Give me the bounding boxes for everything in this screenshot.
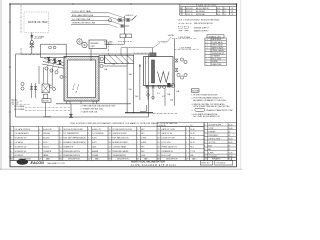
svg-text:FC20: FC20 xyxy=(43,142,47,144)
svg-text:I.O TANK: I.O TANK xyxy=(43,115,52,118)
flue fan housing xyxy=(99,56,105,63)
svg-text:15A: 15A xyxy=(167,93,171,96)
leader 2 xyxy=(109,17,124,22)
svg-text:60-50: 60-50 xyxy=(228,138,232,140)
svg-text:S.H.: S.H. xyxy=(217,11,221,13)
svg-text:1: 1 xyxy=(137,129,138,131)
svg-text:K.J.: K.J. xyxy=(224,8,227,10)
riser leader xyxy=(167,37,171,42)
svg-text:A: A xyxy=(76,91,78,94)
symbol list table xyxy=(205,38,227,66)
svg-text:E75-B1131: E75-B1131 xyxy=(217,163,226,165)
notes block xyxy=(191,89,199,92)
cluster box B xyxy=(126,34,132,38)
left tag bubble 1 xyxy=(21,82,24,85)
svg-text:1-A PA: 1-A PA xyxy=(168,34,175,37)
svg-text:50-60: 50-60 xyxy=(228,128,232,130)
svg-text:OIL GAUGE ASS'Y: OIL GAUGE ASS'Y xyxy=(15,132,30,135)
svg-text:05.10.08: 05.10.08 xyxy=(186,8,193,10)
svg-text:1+1 RESERVE: 1+1 RESERVE xyxy=(92,133,104,135)
svg-text:1: 1 xyxy=(88,138,89,140)
svg-text:1-1/2B STEAM: 1-1/2B STEAM xyxy=(178,36,190,39)
parts table cells xyxy=(11,124,196,157)
svg-text:20: 20 xyxy=(109,151,111,153)
lance valve 2 xyxy=(53,59,57,64)
legend maker supply xyxy=(179,30,189,32)
svg-text:A-2000 / PC: A-2000 / PC xyxy=(92,128,102,131)
riser tag 2 xyxy=(184,60,187,63)
dashdot to box xyxy=(134,52,150,54)
svg-text:AS ORDER: AS ORDER xyxy=(196,10,206,13)
svg-text:4: 4 xyxy=(11,142,12,144)
control valve body xyxy=(30,44,34,47)
drain valve xyxy=(70,114,73,117)
svg-text:S.H.: S.H. xyxy=(217,14,221,16)
control valve actuator xyxy=(30,41,33,44)
svg-text:BOLT: BOLT xyxy=(208,145,212,147)
burner gauge 1 xyxy=(49,46,52,49)
svg-text:15: 15 xyxy=(109,129,111,131)
revision table xyxy=(180,4,237,15)
svg-text:GLOBE VALVE: GLOBE VALVE xyxy=(212,41,223,44)
svg-text:BURNER: BURNER xyxy=(91,43,100,45)
svg-text:DRAIN TRAP: DRAIN TRAP xyxy=(212,63,222,66)
svg-text:SEE SPECIFICATION: SEE SPECIFICATION xyxy=(194,22,213,25)
oil inlet valve 2 xyxy=(35,83,37,98)
svg-text:○: ○ xyxy=(206,53,207,55)
cluster box A xyxy=(120,34,126,38)
riser dash-dot xyxy=(172,38,196,40)
svg-text:STRAINER 1B: STRAINER 1B xyxy=(162,150,174,153)
svg-text:5K-15: 5K-15 xyxy=(190,138,195,140)
svg-text:SET: SET xyxy=(141,129,144,131)
flue duct xyxy=(105,55,134,63)
svg-text:3: 3 xyxy=(11,138,12,140)
svg-text:0.4KW: 0.4KW xyxy=(141,142,146,144)
svg-text:V-1: V-1 xyxy=(157,93,160,95)
svg-text:2: 2 xyxy=(39,146,40,148)
boiler downpipe 3 xyxy=(164,88,166,106)
strainer box xyxy=(42,99,51,103)
svg-text:WASTE OIL TANK: WASTE OIL TANK xyxy=(28,21,48,24)
air pipe xyxy=(121,47,153,49)
svg-text:60Φ: 60Φ xyxy=(141,150,145,153)
svg-text:1: 1 xyxy=(204,124,205,126)
svg-text:GATE VALVE: GATE VALVE xyxy=(212,38,222,41)
svg-text:A-ITR: A-ITR xyxy=(92,137,97,140)
blower fan 1 xyxy=(77,39,82,44)
svg-text:2: 2 xyxy=(204,128,205,130)
svg-text:SOL-DRAIN: SOL-DRAIN xyxy=(14,108,25,111)
scan edge right xyxy=(240,0,242,170)
svg-text:6: 6 xyxy=(11,151,12,153)
dashed vent xyxy=(118,41,132,43)
svg-text:1: 1 xyxy=(88,142,89,144)
riser tag 5 xyxy=(184,73,187,76)
svg-text:1: 1 xyxy=(186,125,187,127)
svg-text:PLAN HISTORY: PLAN HISTORY xyxy=(196,4,217,7)
svg-text:MODEL: MODEL xyxy=(43,101,49,103)
riser tag 4 xyxy=(180,76,183,79)
riser pipe xyxy=(174,39,176,87)
boiler inner wall xyxy=(145,57,147,86)
wire tank outlet xyxy=(31,33,33,41)
instrument bubble top xyxy=(108,19,111,22)
svg-text:OIL VALVE: OIL VALVE xyxy=(15,141,24,144)
svg-text:8: 8 xyxy=(204,149,205,151)
svg-text:NO: NO xyxy=(59,158,62,160)
svg-text:PRESS GAUGE V/V: PRESS GAUGE V/V xyxy=(162,145,178,148)
svg-text:AC220V: AC220V xyxy=(43,137,50,140)
svg-text:10: 10 xyxy=(60,138,62,140)
svg-text:25A: 25A xyxy=(176,90,180,93)
svg-text:DIFF PRESS: DIFF PRESS xyxy=(208,135,217,137)
svg-text:SET: SET xyxy=(141,133,144,135)
svg-text:25: 25 xyxy=(158,142,160,144)
feed drop pipes xyxy=(39,66,52,85)
svg-text:UNIT: UNIT xyxy=(91,46,96,48)
burner blower unit xyxy=(89,40,107,49)
maker logo xyxy=(17,159,29,165)
svg-text:2: 2 xyxy=(39,138,40,140)
svg-text:MAT'L: MAT'L xyxy=(95,157,100,160)
svg-text:5: 5 xyxy=(204,138,205,140)
manifold valve 1 xyxy=(146,86,149,88)
svg-text:MACHINE CO. LTD: MACHINE CO. LTD xyxy=(48,162,66,165)
svg-text:FLAME EYE: FLAME EYE xyxy=(64,145,74,148)
svg-text:9: 9 xyxy=(60,133,61,135)
svg-text:1: 1 xyxy=(39,129,40,131)
svg-text:1: 1 xyxy=(39,133,40,135)
svg-text:7: 7 xyxy=(204,145,205,147)
manifold gauge 2 xyxy=(163,85,166,88)
incinerator furnace wall xyxy=(64,57,99,102)
svg-text:05.12.15: 05.12.15 xyxy=(186,14,193,16)
svg-text:3.7KW: 3.7KW xyxy=(141,138,146,140)
svg-text:SUS-304: SUS-304 xyxy=(43,133,50,135)
svg-text:27: 27 xyxy=(158,151,160,153)
waste oil tank (dashed box) xyxy=(24,12,49,33)
wire to boundary xyxy=(31,47,33,54)
svg-text:DESCRIPTION: DESCRIPTION xyxy=(68,158,80,160)
svg-text:FLOW DIAGRAM E75-B1131: FLOW DIAGRAM E75-B1131 xyxy=(131,164,176,167)
riser tag 3 xyxy=(177,73,180,76)
svg-text:KF-1: KF-1 xyxy=(190,146,194,148)
svg-text:□: □ xyxy=(206,56,207,58)
svg-text:23: 23 xyxy=(158,133,160,135)
svg-text:P-PIPING: P-PIPING xyxy=(208,131,216,133)
riser valve 1 xyxy=(175,59,178,62)
svg-text:18: 18 xyxy=(109,142,111,144)
svg-text:Y.S.: Y.S. xyxy=(231,11,235,13)
svg-text:05.11.02: 05.11.02 xyxy=(186,11,193,13)
wire unit down xyxy=(90,49,92,62)
legend dash-dot xyxy=(179,22,193,24)
svg-text:SOLENOID V/V: SOLENOID V/V xyxy=(15,146,28,148)
svg-text:IGNITION DEVICE: IGNITION DEVICE xyxy=(113,133,128,135)
deck dash-dot xyxy=(153,112,177,114)
boiler downpipe 2 xyxy=(152,88,154,100)
dwg no box 2 xyxy=(215,161,233,165)
legend engine supply xyxy=(179,26,183,28)
right ref table cells xyxy=(204,124,232,158)
burner tag 1 xyxy=(45,67,48,70)
svg-text:1/4B SOL+VENT: 1/4B SOL+VENT xyxy=(208,138,220,140)
svg-text:5K-15: 5K-15 xyxy=(190,142,195,144)
svg-text:SAFETY VALVE: SAFETY VALVE xyxy=(212,46,224,49)
svg-text:QRB: QRB xyxy=(92,146,97,148)
svg-text:CHECK VALVE: CHECK VALVE xyxy=(212,44,223,47)
leader 3 xyxy=(109,21,121,25)
svg-text:MAT'L: MAT'L xyxy=(192,157,197,160)
blower fan 2 xyxy=(82,42,87,47)
symbol list header xyxy=(207,35,224,38)
svg-text:ALARM: ALARM xyxy=(92,150,98,153)
svg-text:2: 2 xyxy=(186,129,187,131)
svg-text:B: B xyxy=(73,89,75,91)
svg-text:OIL GATE STOPPLE: OIL GATE STOPPLE xyxy=(15,128,32,131)
svg-text:Y.S.: Y.S. xyxy=(231,14,235,16)
svg-text:AS QUOTATION: AS QUOTATION xyxy=(196,7,209,10)
svg-text:ENGINE SUPPLY: ENGINE SUPPLY xyxy=(194,27,210,29)
riser tag 1 xyxy=(180,58,183,61)
riser branch dashdot xyxy=(175,48,200,50)
manifold valve 2 xyxy=(152,86,155,88)
floor line xyxy=(56,103,131,105)
burner lance 1 xyxy=(44,59,64,63)
strainer X box xyxy=(42,84,49,93)
svg-text:V-2: V-2 xyxy=(162,96,165,98)
svg-text:OIL TYPE: OIL TYPE xyxy=(208,142,215,144)
svg-text:24: 24 xyxy=(158,138,160,140)
border frame xyxy=(10,4,237,167)
svg-text:THERMOMETER: THERMOMETER xyxy=(212,53,225,55)
svg-text:STRAINER: STRAINER xyxy=(212,55,221,58)
boiler downpipe 4 xyxy=(174,87,176,106)
riser valve 2 xyxy=(175,69,178,72)
svg-text:NO LIN AT ECONOMIZER TOP: NO LIN AT ECONOMIZER TOP xyxy=(193,115,220,118)
svg-text:SC: SC xyxy=(228,158,231,160)
svg-text:23-45: 23-45 xyxy=(228,124,232,126)
downpipe tag 1 xyxy=(147,94,150,97)
left tag bubble 2 xyxy=(21,87,24,90)
svg-text:1-1/2B STEAM: 1-1/2B STEAM xyxy=(179,47,191,50)
svg-text:GATE V/V 1-1/2B: GATE V/V 1-1/2B xyxy=(162,128,176,131)
svg-text:A, B, C PORTION FIXED : AS A Q: A, B, C PORTION FIXED : AS A QUOTATION(S… xyxy=(179,18,220,21)
svg-text:REMARKS: REMARKS xyxy=(212,157,221,160)
svg-text:60: 60 xyxy=(228,131,230,133)
svg-text:1: 1 xyxy=(88,133,89,135)
svg-text:APPROVAL: APPROVAL xyxy=(196,13,205,16)
svg-text:2: 2 xyxy=(186,133,187,135)
lance valve 1 xyxy=(47,57,51,62)
svg-text:FUNNEL: FUNNEL xyxy=(212,61,218,63)
furnace drain stub xyxy=(80,101,82,104)
svg-text:T-PIPE: T-PIPE xyxy=(208,128,213,130)
long vertical pipe 1 xyxy=(126,48,128,113)
svg-text:22: 22 xyxy=(158,129,160,131)
skid boundary xyxy=(16,54,149,117)
svg-text:3: 3 xyxy=(204,131,205,133)
svg-text:1: 1 xyxy=(11,129,12,131)
svg-text:1: 1 xyxy=(137,133,138,135)
svg-text:4: 4 xyxy=(186,138,187,140)
burner tag 2 xyxy=(50,69,53,72)
svg-text:SLUDGE DOSING PUMP: SLUDGE DOSING PUMP xyxy=(64,129,84,131)
pipe from deck (dash-dot) xyxy=(20,5,22,33)
svg-text:EXH. GAS VENT LINE: EXH. GAS VENT LINE xyxy=(72,14,94,17)
svg-text:PRESS. GAUGE: PRESS. GAUGE xyxy=(212,49,224,52)
svg-text:MAKER SUPPLY: MAKER SUPPLY xyxy=(194,30,209,33)
svg-text:2: 2 xyxy=(137,151,138,153)
furnace leg left xyxy=(67,101,71,104)
svg-text:5: 5 xyxy=(11,146,12,148)
drop to boundary xyxy=(45,102,47,117)
svg-text:FURNACE THERMOSTAT(S): FURNACE THERMOSTAT(S) xyxy=(64,141,87,144)
svg-text:B.C TRANSMITTER: B.C TRANSMITTER xyxy=(64,132,80,135)
svg-text:1. PIPE LINE SIZE 15A UNLESS N: 1. PIPE LINE SIZE 15A UNLESS NOTED xyxy=(81,105,117,108)
svg-text:MAT'L: MAT'L xyxy=(46,157,51,160)
svg-text:3. VALVE SIZE 15A: 3. VALVE SIZE 15A xyxy=(81,111,98,114)
stack stub xyxy=(151,48,153,53)
inlet manifold cluster xyxy=(117,16,137,35)
pump body xyxy=(167,83,170,87)
wire furnace right xyxy=(103,65,127,67)
svg-text:1: 1 xyxy=(137,138,138,140)
svg-text:A-105 C/W: A-105 C/W xyxy=(43,128,52,131)
frame tick marks xyxy=(9,3,131,157)
svg-text:4: 4 xyxy=(204,135,205,137)
svg-text:2: 2 xyxy=(186,142,187,144)
svg-text:45: 45 xyxy=(228,149,230,151)
svg-text:2: 2 xyxy=(11,133,12,135)
svg-text:NO: NO xyxy=(108,158,111,160)
svg-text:8: 8 xyxy=(60,129,61,131)
burner feed dash-dot xyxy=(21,48,41,55)
svg-text:12: 12 xyxy=(60,146,62,148)
svg-text:EACON: EACON xyxy=(18,161,26,164)
svg-text:OIL SUPP STUFF: OIL SUPP STUFF xyxy=(208,124,221,126)
svg-text:15A: 15A xyxy=(104,68,108,71)
svg-text:15A: 15A xyxy=(129,88,133,91)
svg-text:11: 11 xyxy=(60,142,62,144)
burner lance 2 xyxy=(43,62,64,66)
svg-text:DWG. NO.: DWG. NO. xyxy=(202,163,211,165)
svg-text:Y.S.: Y.S. xyxy=(231,8,235,10)
svg-text:BE BASED ON MAKER TO THE DWG.: BE BASED ON MAKER TO THE DWG. xyxy=(193,99,227,102)
svg-text:1-1/2B×1B: 1-1/2B×1B xyxy=(158,124,167,127)
svg-text:CONTROL PANEL: CONTROL PANEL xyxy=(113,145,127,148)
boiler tube bank xyxy=(152,60,155,83)
exhaust gas boiler xyxy=(144,57,174,86)
svg-text:EACON: EACON xyxy=(31,161,45,165)
furnace leg right xyxy=(93,101,97,104)
downpipe tag 2 xyxy=(152,96,155,99)
svg-text:S.H.: S.H. xyxy=(217,8,221,10)
boiler top box xyxy=(150,53,156,57)
svg-text:1: 1 xyxy=(88,129,89,131)
manifold gauge 1 xyxy=(158,85,161,88)
svg-text:A-ITR: A-ITR xyxy=(92,141,97,144)
pump gauge 2 xyxy=(53,88,56,91)
svg-text:5K-40: 5K-40 xyxy=(190,129,195,131)
svg-text:K.J.: K.J. xyxy=(224,14,227,16)
svg-text:SCS-13: SCS-13 xyxy=(43,146,49,148)
svg-text:26: 26 xyxy=(158,146,160,148)
small fitting box xyxy=(43,94,47,98)
boiler downpipe 1 xyxy=(147,88,149,100)
svg-text:A-PIPE: A-PIPE xyxy=(208,151,213,154)
svg-text:FLEX. JOINT: FLEX. JOINT xyxy=(212,58,222,60)
svg-text:DESCRIPTION: DESCRIPTION xyxy=(117,158,129,160)
svg-text:1: 1 xyxy=(39,151,40,153)
svg-text:60-40: 60-40 xyxy=(228,152,232,154)
scan edge bottom xyxy=(0,168,242,170)
svg-text:DESCRIPTION: DESCRIPTION xyxy=(166,158,178,160)
svg-text:TO F.O. SETT TANK: TO F.O. SETT TANK xyxy=(72,10,92,13)
svg-text:60: 60 xyxy=(228,135,230,137)
wire manifold to unit xyxy=(107,43,125,45)
svg-text:□: □ xyxy=(206,58,207,60)
svg-text:1: 1 xyxy=(137,146,138,148)
svg-text:1: 1 xyxy=(88,151,89,153)
svg-text:COCK 1/2B: COCK 1/2B xyxy=(162,142,172,144)
svg-text:2: 2 xyxy=(186,151,187,153)
lance valve 3 xyxy=(58,60,62,65)
svg-text:K.J.: K.J. xyxy=(224,11,227,13)
svg-text:13: 13 xyxy=(60,151,62,153)
furnace bubble xyxy=(60,75,63,78)
svg-text:17: 17 xyxy=(109,138,111,140)
parts table xyxy=(10,123,204,158)
furnace drain pipe xyxy=(70,104,72,117)
furnace inner wall xyxy=(68,60,96,98)
burner box xyxy=(41,44,66,57)
svg-text:4.: 4. xyxy=(191,110,193,112)
leader 1 xyxy=(109,13,126,19)
svg-text:1: 1 xyxy=(137,142,138,144)
svg-text:19: 19 xyxy=(109,146,111,148)
footer band xyxy=(10,160,236,162)
svg-text:2. STEAM LINE SIZE 10A: 2. STEAM LINE SIZE 10A xyxy=(81,108,104,111)
svg-text:EXH. FAN & MOTOR: EXH. FAN & MOTOR xyxy=(113,137,130,140)
svg-text:SOL-DRAIN: SOL-DRAIN xyxy=(14,105,25,108)
svg-text:SOLENOID V/V: SOLENOID V/V xyxy=(15,138,28,140)
svg-text:QT: QT xyxy=(204,158,206,160)
svg-text:2: 2 xyxy=(186,146,187,148)
svg-text:GLOBE V/V 1/2B: GLOBE V/V 1/2B xyxy=(162,138,176,140)
dwg no box 1 xyxy=(200,161,212,165)
svg-text:9: 9 xyxy=(204,152,205,154)
leader 4 xyxy=(109,25,118,28)
svg-text:○: ○ xyxy=(206,50,207,52)
boiler arrow xyxy=(139,64,141,67)
long vertical pipe 2 xyxy=(133,64,135,113)
boiler bottom manifold xyxy=(145,86,173,88)
header row xyxy=(10,157,236,161)
flue dashdot drop xyxy=(107,42,109,55)
svg-text:QT: QT xyxy=(88,158,90,160)
svg-text:UNSEEN STEAM SUPPLY TAP: UNSEEN STEAM SUPPLY TAP xyxy=(206,109,233,112)
svg-text:SOLENOID V/V: SOLENOID V/V xyxy=(15,151,28,153)
svg-text:SET: SET xyxy=(141,146,144,148)
svg-text:NOTE: NOTE xyxy=(192,91,199,93)
svg-text:QT: QT xyxy=(186,158,188,160)
svg-text:TO STACK: TO STACK xyxy=(158,40,168,43)
right ref table xyxy=(204,123,236,158)
svg-text:QT: QT xyxy=(39,158,41,160)
svg-text:1. FLUSH THE AIR IN BOILER.: 1. FLUSH THE AIR IN BOILER. xyxy=(191,93,218,96)
